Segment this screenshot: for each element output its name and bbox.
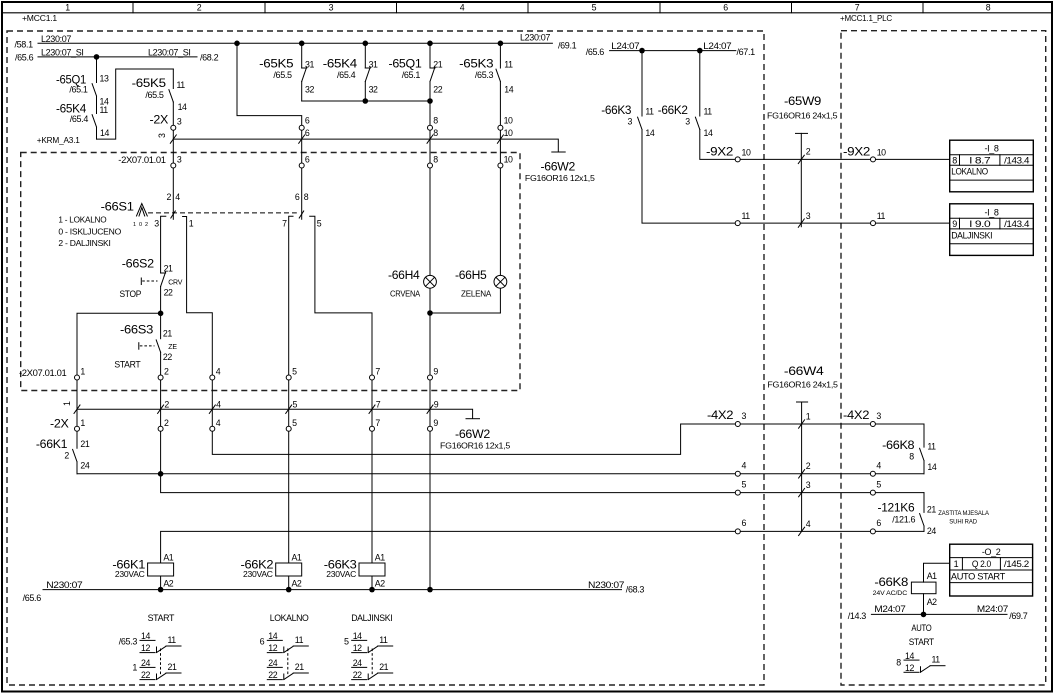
svg-text:1: 1: [133, 222, 136, 228]
selector contact pins: [154, 219, 322, 229]
svg-text:6: 6: [260, 637, 265, 647]
svg-text:11: 11: [877, 211, 886, 221]
cable -66W4 marker line: [797, 402, 808, 531]
terminal -2X upper label: [150, 112, 169, 126]
svg-text:10: 10: [742, 148, 751, 158]
svg-text:1 - LOKALNO: 1 - LOKALNO: [58, 214, 107, 224]
coil -66K8 function text: [909, 623, 935, 647]
contact -65K3 11/14: [459, 57, 514, 95]
svg-text:/65.6: /65.6: [586, 47, 605, 57]
terminal -2X:7 lower: [370, 418, 381, 431]
svg-text:31: 31: [369, 60, 378, 70]
svg-text:3: 3: [154, 219, 159, 229]
terminal -9X2 label left: [706, 145, 734, 159]
contact -65K4 11/14: [56, 102, 109, 139]
svg-text:2 - DALJINSKI: 2 - DALJINSKI: [58, 238, 110, 248]
terminal -9X2:11 right: [871, 211, 886, 225]
net label L230:07 left: [15, 34, 72, 50]
wire L230:07_SI: [38, 56, 197, 58]
svg-text:10: 10: [504, 128, 513, 138]
svg-text:24: 24: [268, 658, 277, 668]
svg-text:-66H4: -66H4: [388, 268, 420, 282]
svg-text:/145.2: /145.2: [1004, 559, 1029, 569]
wire -2X:3 to selector pole 1: [172, 128, 174, 220]
wire row4 K8-contact: [77, 473, 924, 475]
plc output Q2.0 AUTO START: [950, 544, 1033, 596]
net label M24:07: [848, 604, 1028, 621]
lamp -66H5 ZELENA: [455, 268, 507, 299]
svg-text:24: 24: [353, 658, 362, 668]
terminal -2X07.01.01:4 lower: [210, 366, 221, 380]
svg-text:22: 22: [433, 85, 442, 95]
svg-text:-65Q1: -65Q1: [389, 57, 423, 71]
svg-text:6: 6: [305, 154, 310, 164]
wire -65K3 11 branch: [499, 43, 501, 276]
wire lamp -66H4 feed: [429, 101, 431, 276]
svg-text:7: 7: [376, 400, 381, 410]
cable -65W9 labels: [767, 94, 838, 120]
wire row6 from -121K6 to K1 coil: [161, 531, 924, 563]
wire terminal 9 column: [429, 378, 431, 429]
svg-text:FG16OR16 24x1,5: FG16OR16 24x1,5: [767, 110, 838, 120]
svg-text:14: 14: [905, 651, 914, 661]
svg-text:8: 8: [304, 192, 309, 202]
svg-text:START: START: [114, 359, 141, 369]
contact -65Q1 21/22: [389, 57, 443, 95]
junction L24 K3: [639, 48, 645, 54]
terminal -9X2:10 left: [735, 148, 751, 162]
svg-text:5: 5: [876, 479, 881, 489]
svg-text:12: 12: [268, 643, 277, 653]
terminal -2X:10: [498, 115, 513, 130]
svg-text:-4X2: -4X2: [707, 408, 734, 422]
svg-text:LOKALNO: LOKALNO: [270, 613, 309, 623]
svg-text:9: 9: [952, 219, 957, 229]
pushbutton -66S2 STOP 21/22: [120, 257, 183, 300]
svg-text:-66W4: -66W4: [784, 364, 824, 378]
svg-text:1: 1: [80, 366, 85, 376]
enclosure box +MCC1.1: [7, 31, 764, 685]
svg-text:/65.4: /65.4: [337, 70, 356, 80]
junction lamp common: [427, 310, 433, 316]
svg-text:-66W2: -66W2: [541, 160, 576, 174]
terminal -4X2:5 right: [870, 479, 881, 495]
wire -66K3 aux to -9X2:11: [642, 51, 950, 224]
svg-text:4: 4: [806, 519, 811, 529]
svg-text:21: 21: [379, 662, 388, 672]
svg-text:FG16OR16 24x1,5: FG16OR16 24x1,5: [767, 380, 838, 390]
svg-text:10: 10: [877, 148, 886, 158]
cable -66W4 conductor 1: [799, 411, 811, 428]
svg-text:1: 1: [80, 418, 85, 428]
svg-text:STOP: STOP: [120, 289, 142, 299]
svg-text:3: 3: [685, 117, 690, 127]
svg-text:/69.1: /69.1: [558, 41, 577, 51]
terminal -2X:1 lower: [75, 418, 86, 431]
svg-text:3: 3: [628, 117, 633, 127]
svg-text:2: 2: [806, 461, 811, 471]
cable -66W2 conductor 8: [427, 128, 438, 143]
junction N lamps: [427, 587, 433, 593]
selector pole pins: [166, 192, 308, 202]
selector contact 5 wire: [310, 216, 372, 377]
junction L230:07 x430: [427, 41, 433, 47]
svg-text:-121K6: -121K6: [878, 501, 915, 515]
svg-text:11: 11: [295, 635, 304, 645]
junction L230:07 x301: [299, 41, 305, 47]
terminal strip -2X07.01.01 upper label: [118, 155, 166, 165]
contact table -66K8 AUTO START: [896, 651, 945, 673]
svg-text:3: 3: [157, 133, 167, 138]
svg-text:2: 2: [64, 451, 69, 461]
plc input I9.0 DALJINSKI: [950, 204, 1034, 256]
svg-text:-65K3: -65K3: [459, 57, 494, 71]
svg-text:A1: A1: [163, 553, 173, 563]
junction contact bottoms K4: [363, 98, 369, 104]
svg-text:22: 22: [141, 670, 150, 680]
svg-text:/65.3: /65.3: [119, 637, 138, 647]
net label L24:07: [586, 41, 755, 57]
svg-text:3: 3: [876, 411, 881, 421]
svg-text:32: 32: [305, 85, 314, 95]
svg-text:7: 7: [375, 366, 380, 376]
svg-text:230VAC: 230VAC: [326, 569, 356, 579]
terminal -9X2:11 left: [735, 211, 750, 225]
svg-text:-9X2: -9X2: [843, 145, 871, 159]
svg-text:2: 2: [164, 400, 169, 410]
contact -65K4 31/32: [323, 57, 378, 95]
svg-text:-65W9: -65W9: [784, 94, 822, 108]
terminal -4X2:6 left: [735, 518, 746, 534]
svg-text:+KRM_A3.1: +KRM_A3.1: [37, 135, 80, 145]
svg-text:8: 8: [986, 2, 991, 12]
svg-text:3: 3: [806, 480, 811, 490]
svg-text:-9X2: -9X2: [706, 145, 734, 159]
svg-text:6: 6: [742, 518, 747, 528]
svg-text:1: 1: [65, 2, 70, 12]
svg-text:ZASTITA MJESALA: ZASTITA MJESALA: [938, 511, 989, 517]
enclosure box +KRM_A3.1: [21, 135, 520, 391]
svg-text:M24:07: M24:07: [977, 604, 1008, 614]
svg-text:11: 11: [742, 211, 751, 221]
svg-text:-66H5: -66H5: [455, 268, 487, 282]
svg-text:14: 14: [178, 102, 187, 112]
svg-text:8: 8: [952, 155, 957, 165]
svg-text:5: 5: [592, 2, 597, 12]
terminal -4X2:4 left: [735, 461, 746, 477]
svg-text:/65.4: /65.4: [70, 114, 89, 124]
svg-text:5: 5: [317, 219, 322, 229]
svg-text:31: 31: [305, 60, 314, 70]
contact -66K1 21/24: [36, 437, 90, 470]
wire coil K1 to N: [160, 576, 162, 590]
wire lamp -66H4 to common: [429, 288, 431, 313]
cable -66W2 conductor 4 lower: [209, 400, 221, 414]
svg-text:7: 7: [282, 219, 287, 229]
svg-text:12: 12: [905, 663, 914, 673]
svg-text:14: 14: [927, 462, 936, 472]
cable -66W2 conductor 10: [497, 128, 513, 143]
svg-text:-66S3: -66S3: [120, 323, 154, 337]
svg-text:-66K8: -66K8: [882, 438, 915, 452]
svg-text:/68.3: /68.3: [626, 584, 645, 594]
svg-text:1: 1: [806, 411, 811, 421]
svg-text:21: 21: [164, 263, 173, 273]
selector contact 1 wire: [183, 217, 213, 378]
svg-text:11: 11: [504, 60, 513, 70]
wire -66S2 to junction: [160, 287, 162, 314]
terminal -2X07.01.01:6: [299, 154, 310, 168]
svg-text:-2X: -2X: [150, 112, 169, 126]
wire -66K8 coil A1: [924, 563, 950, 582]
svg-text:13: 13: [100, 74, 109, 84]
svg-text:6: 6: [295, 192, 300, 202]
svg-text:-66S2: -66S2: [122, 257, 155, 271]
svg-text:11: 11: [932, 655, 941, 665]
svg-text:14: 14: [141, 631, 150, 641]
svg-text:6: 6: [305, 128, 310, 138]
svg-text:14: 14: [353, 631, 362, 641]
svg-text:/65.1: /65.1: [402, 70, 421, 80]
svg-text:6: 6: [723, 2, 728, 12]
svg-text:21: 21: [927, 504, 936, 514]
svg-text:L230:07_SI: L230:07_SI: [41, 47, 84, 57]
wire L24:07: [610, 50, 736, 52]
svg-text:-65K5: -65K5: [259, 57, 294, 71]
svg-text:/65.3: /65.3: [475, 70, 494, 80]
wire -66K2 aux to -9X2:10: [700, 51, 950, 160]
junction L230:07 x365: [363, 41, 369, 47]
svg-text:7: 7: [375, 418, 380, 428]
cable -66W4 conductor 2: [799, 461, 811, 478]
wire terminal 2 column: [160, 378, 162, 474]
plc input I8.7 LOKALNO: [950, 140, 1034, 192]
terminal -2X07.01.01:8: [428, 154, 439, 168]
svg-text:11: 11: [168, 635, 177, 645]
svg-text:1: 1: [62, 401, 72, 406]
svg-text:0 - ISKLJUCENO: 0 - ISKLJUCENO: [58, 226, 121, 236]
svg-text:L24:07: L24:07: [611, 41, 639, 51]
wire terminal 7 column: [371, 378, 373, 429]
svg-text:I 8.7: I 8.7: [969, 155, 990, 165]
svg-text:M24:07: M24:07: [874, 604, 905, 614]
wire terminal 4 column: [211, 378, 213, 429]
cable -65W9 conductor 2: [798, 147, 810, 164]
coil -66K3 230VAC: [324, 553, 385, 589]
svg-text:4: 4: [216, 366, 221, 376]
svg-text:21: 21: [163, 328, 172, 338]
svg-text:11: 11: [645, 107, 654, 117]
svg-text:/65.5: /65.5: [145, 90, 164, 100]
svg-text:-4X2: -4X2: [843, 408, 870, 422]
svg-text:-66K3: -66K3: [601, 103, 631, 117]
pushbutton -66S3 START 21/22: [114, 323, 177, 370]
net label L230:07 right: [520, 33, 577, 51]
svg-text:L24:07: L24:07: [703, 41, 731, 51]
svg-text:-66W2: -66W2: [455, 427, 491, 441]
wire -65K4 31 branch: [364, 43, 366, 101]
net label N230:07: [23, 580, 645, 603]
cable -66W2 lower run: [77, 409, 480, 419]
svg-text:-66S1: -66S1: [101, 200, 135, 214]
svg-text:2: 2: [806, 147, 811, 157]
svg-text:N230:07: N230:07: [46, 580, 82, 590]
svg-text:START: START: [148, 613, 175, 623]
location label +MCC1.1: [22, 13, 57, 23]
svg-text:5: 5: [293, 400, 298, 410]
svg-text:21: 21: [80, 439, 89, 449]
svg-text:/65.5: /65.5: [273, 70, 292, 80]
svg-text:/65.6: /65.6: [23, 593, 42, 603]
contact table -66K3 DALJINSKI: [344, 613, 393, 680]
wire lamp -66H5 to common: [499, 288, 501, 313]
terminal -2X:3: [171, 117, 182, 131]
svg-text:6: 6: [876, 518, 881, 528]
svg-text:1: 1: [954, 559, 959, 569]
wire coil K2 to N: [288, 576, 290, 590]
svg-text:21: 21: [433, 60, 442, 70]
svg-text:L230:07_SI: L230:07_SI: [148, 47, 191, 57]
junction M24 K8: [921, 612, 927, 618]
terminal -4X2:3 right: [870, 411, 881, 427]
svg-text:A1: A1: [292, 553, 302, 563]
wire -121K6 contact column: [923, 493, 925, 532]
svg-text:21: 21: [295, 662, 304, 672]
junction contact bottoms Q1: [427, 98, 433, 104]
svg-text:-66K2: -66K2: [658, 103, 688, 117]
svg-text:2: 2: [164, 366, 169, 376]
svg-text:8: 8: [433, 115, 438, 125]
wire -65Q1/-65K4 chain to -65K5: [97, 57, 174, 139]
junction -66S2/-66S3: [158, 311, 164, 317]
contact -65K5 31/32: [259, 57, 314, 95]
wire link contact bottoms: [302, 100, 430, 102]
svg-text:4: 4: [216, 400, 221, 410]
svg-text:Q 2.0: Q 2.0: [972, 559, 991, 569]
svg-text:9: 9: [434, 400, 439, 410]
svg-text:-65K5: -65K5: [132, 76, 167, 90]
svg-text:0: 0: [139, 222, 142, 228]
cable -66W4 conductor 3: [799, 480, 811, 497]
terminal -2X07.01.01:9 lower: [428, 366, 439, 380]
terminal -2X07.01.01:5 lower: [286, 366, 297, 380]
junction K1 coil branch: [158, 471, 164, 477]
terminal -2X07.01.01:2 lower: [158, 366, 169, 380]
wire -65Q1 21 branch: [429, 43, 431, 101]
svg-text:4: 4: [175, 192, 180, 202]
cable -66W2 conductor 7 lower: [369, 400, 381, 414]
wire row5 to -121K6: [161, 474, 924, 493]
svg-text:-2X07.01.01: -2X07.01.01: [118, 155, 166, 165]
contact -66K2 aux 11/14: [658, 103, 713, 138]
svg-text:12: 12: [353, 643, 362, 653]
svg-text:/69.7: /69.7: [1009, 611, 1028, 621]
svg-text:A2: A2: [292, 579, 302, 589]
svg-text:5: 5: [292, 418, 297, 428]
terminal -4X2:4 right: [870, 461, 881, 477]
net label L230:07_SI: [15, 47, 219, 62]
wire -65K5 31 branch: [301, 43, 303, 101]
terminal -2X:5 lower: [286, 418, 297, 431]
svg-text:A1: A1: [375, 553, 385, 563]
terminal -2X:8: [428, 115, 439, 130]
svg-text:A2: A2: [163, 579, 173, 589]
selector contact 3 wire: [161, 216, 166, 273]
svg-text:3: 3: [806, 211, 811, 221]
coil -66K1 230VAC: [112, 553, 173, 589]
terminal -2X:4 lower: [210, 418, 221, 431]
cable -66W2 upper run: [173, 139, 565, 152]
svg-text:1: 1: [189, 219, 194, 229]
svg-text:-65K4: -65K4: [323, 57, 358, 71]
junction N K2: [286, 587, 292, 593]
terminal -2X:2 lower: [158, 418, 169, 431]
contact -66K3 aux 11/14: [601, 103, 655, 138]
terminal -9X2 label right: [843, 145, 871, 159]
svg-text:/65.1: /65.1: [69, 85, 88, 95]
svg-text:START: START: [909, 637, 935, 647]
svg-text:3: 3: [329, 2, 334, 12]
svg-text:DALJINSKI: DALJINSKI: [951, 230, 992, 240]
svg-text:N230:07: N230:07: [588, 580, 624, 590]
svg-text:4: 4: [742, 461, 747, 471]
terminal -4X2:6 right: [870, 518, 881, 534]
svg-text:+MCC1.1: +MCC1.1: [22, 13, 57, 23]
svg-text:5: 5: [344, 637, 349, 647]
svg-text:-2X: -2X: [50, 417, 69, 431]
wire K2 coil feed: [288, 429, 290, 563]
enclosure box +MCC1.1_PLC: [841, 31, 1046, 685]
terminal -2X07.01.01:3: [171, 154, 182, 168]
svg-text:5: 5: [292, 366, 297, 376]
svg-text:21: 21: [168, 662, 177, 672]
svg-text:-66K1: -66K1: [36, 437, 68, 451]
svg-text:AUTO START: AUTO START: [951, 572, 1006, 582]
junction L24 K2: [697, 48, 703, 54]
svg-text:A2: A2: [375, 579, 385, 589]
svg-text:9: 9: [433, 366, 438, 376]
svg-text:22: 22: [268, 670, 277, 680]
svg-text:7: 7: [855, 2, 860, 12]
terminal -2X lower label: [50, 417, 69, 431]
wire N230:07: [43, 589, 622, 591]
wire lamp common: [430, 312, 500, 314]
svg-text:230VAC: 230VAC: [243, 569, 273, 579]
cable -66W2 conductor 1: [62, 401, 80, 413]
svg-text:22: 22: [164, 288, 173, 298]
svg-text:4: 4: [876, 461, 881, 471]
wire -66K8 coil A2: [923, 594, 925, 615]
svg-text:-2X07.01.01: -2X07.01.01: [19, 368, 67, 378]
wire lamp column down: [429, 313, 431, 590]
svg-text:DALJINSKI: DALJINSKI: [351, 613, 392, 623]
selector switch -66S1: [101, 200, 304, 229]
svg-text:-I_8: -I_8: [984, 207, 998, 217]
svg-text:14: 14: [645, 128, 654, 138]
contact table -66K1 START: [119, 613, 181, 680]
svg-text:3: 3: [742, 411, 747, 421]
cable -66W2 conductor 6: [299, 128, 310, 143]
svg-text:/67.1: /67.1: [737, 47, 756, 57]
svg-text:A1: A1: [927, 571, 937, 581]
contact -65K5 11/14: [132, 76, 187, 112]
svg-text:5: 5: [742, 479, 747, 489]
svg-text:14: 14: [504, 85, 513, 95]
cable -66W2 conductor 9 lower: [427, 400, 439, 414]
wire -65K5 to -2X:3: [172, 69, 174, 128]
junction on L230:07_SI: [94, 54, 100, 60]
svg-text:FG16OR16 12x1,5: FG16OR16 12x1,5: [525, 173, 595, 183]
